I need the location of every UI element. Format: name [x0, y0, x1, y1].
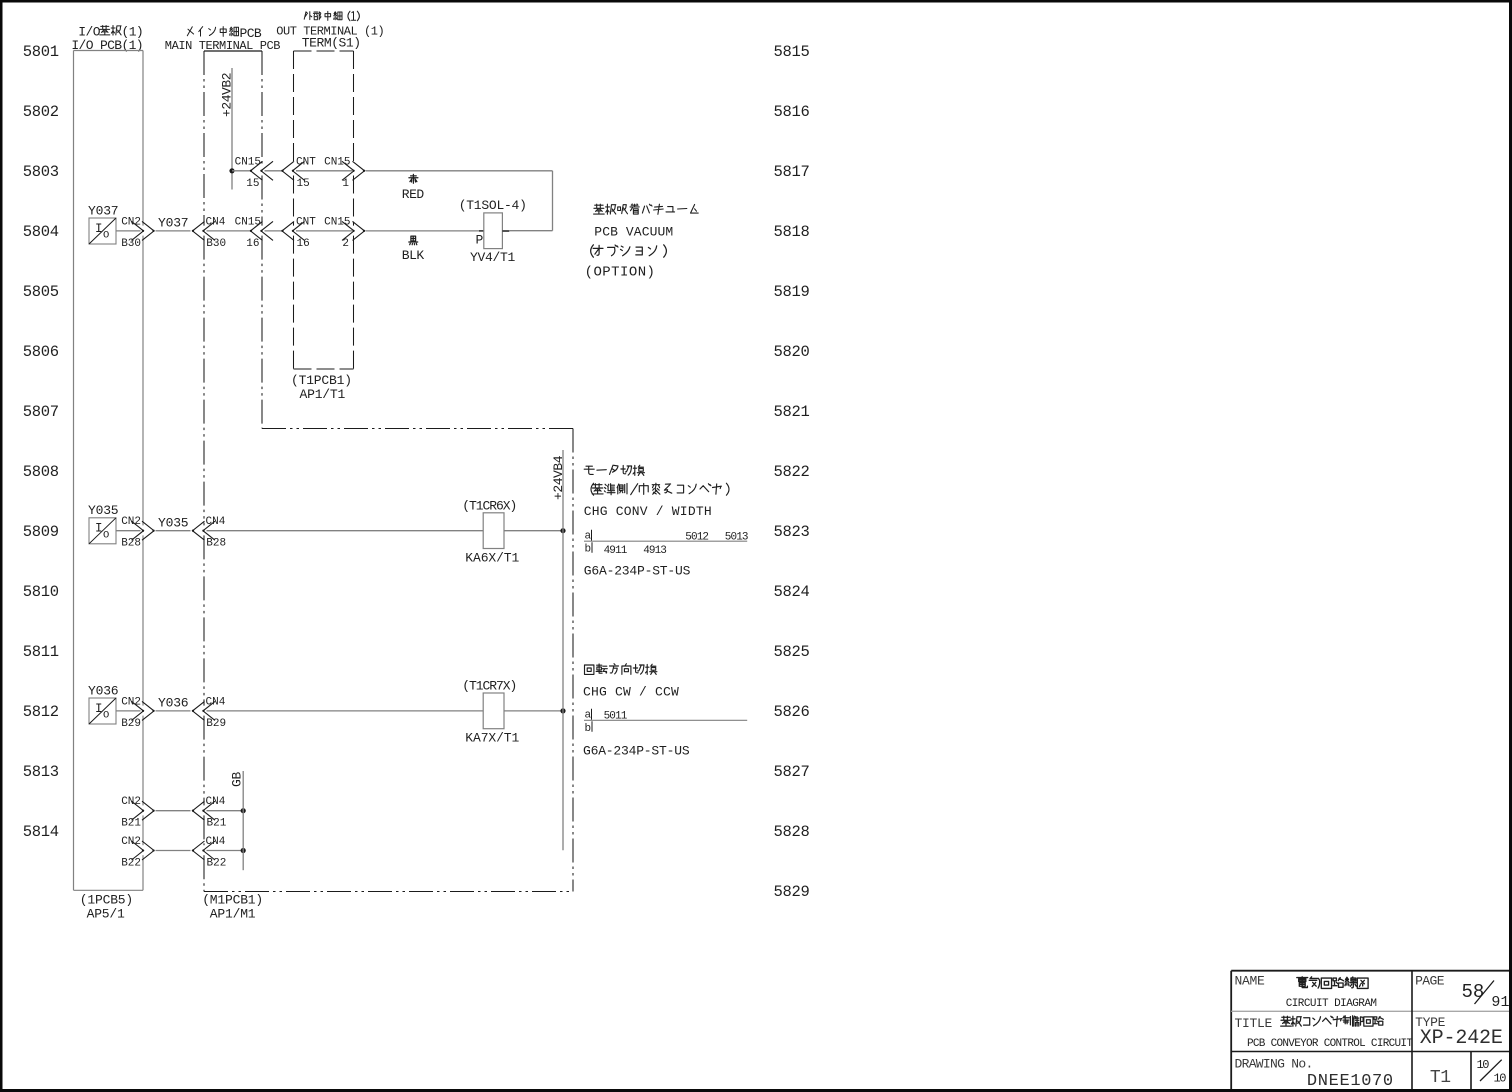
svg-text:5829: 5829 [774, 883, 810, 901]
svg-text:O: O [103, 529, 109, 541]
svg-text:Y036: Y036 [88, 683, 118, 698]
svg-text:CN2: CN2 [121, 836, 141, 848]
svg-text:5809: 5809 [23, 523, 59, 541]
svg-text:5817: 5817 [774, 163, 810, 181]
svg-text:(T1PCB1): (T1PCB1) [291, 373, 352, 388]
svg-text:5828: 5828 [774, 823, 810, 841]
svg-text:B28: B28 [121, 538, 141, 550]
svg-text:CN15: CN15 [235, 156, 261, 168]
svg-text:5818: 5818 [774, 223, 810, 241]
svg-text:5804: 5804 [23, 223, 59, 241]
svg-text:Y037: Y037 [88, 203, 118, 218]
svg-text:Y037: Y037 [158, 216, 188, 231]
svg-text:15: 15 [297, 178, 310, 190]
svg-text:1: 1 [342, 178, 349, 190]
svg-text:NAME: NAME [1235, 974, 1266, 989]
svg-text:PCB VACUUM: PCB VACUUM [594, 224, 673, 239]
svg-text:91: 91 [1491, 994, 1509, 1011]
svg-text:B29: B29 [206, 718, 226, 730]
svg-text:5827: 5827 [774, 763, 810, 781]
svg-text:10: 10 [1494, 1072, 1507, 1086]
svg-text:5806: 5806 [23, 343, 59, 361]
svg-text:PAGE: PAGE [1415, 974, 1445, 989]
svg-text:5811: 5811 [23, 643, 59, 661]
svg-text:DRAWING No.: DRAWING No. [1235, 1057, 1313, 1072]
svg-text:5808: 5808 [23, 463, 59, 481]
svg-text:(T1CR6X): (T1CR6X) [462, 499, 516, 514]
svg-text:O: O [103, 230, 109, 242]
svg-text:B30: B30 [206, 238, 226, 250]
svg-text:XP-242E: XP-242E [1420, 1027, 1503, 1050]
svg-text:4911: 4911 [604, 545, 628, 557]
svg-text:5801: 5801 [23, 43, 59, 61]
svg-text:(T1SOL-4): (T1SOL-4) [459, 198, 527, 213]
svg-text:5802: 5802 [23, 103, 59, 121]
svg-text:5814: 5814 [23, 823, 59, 841]
svg-text:5803: 5803 [23, 163, 59, 181]
svg-text:CN4: CN4 [206, 516, 226, 528]
svg-text:B22: B22 [121, 858, 141, 870]
svg-text:10: 10 [1477, 1058, 1490, 1072]
svg-text:5013: 5013 [725, 531, 748, 543]
svg-text:CN15: CN15 [324, 156, 350, 168]
svg-text:AP5/1: AP5/1 [87, 907, 125, 922]
svg-text:B30: B30 [121, 238, 141, 250]
svg-text:B29: B29 [121, 718, 141, 730]
svg-text:I: I [95, 702, 103, 716]
svg-text:KA7X/T1: KA7X/T1 [465, 731, 519, 746]
svg-text:CNT: CNT [296, 156, 316, 168]
svg-text:O: O [103, 710, 109, 722]
svg-text:I: I [95, 222, 103, 236]
svg-text:B22: B22 [207, 858, 227, 870]
svg-text:KA6X/T1: KA6X/T1 [465, 551, 519, 566]
svg-text:CIRCUIT DIAGRAM: CIRCUIT DIAGRAM [1286, 998, 1377, 1010]
svg-text:Y036: Y036 [158, 696, 188, 711]
svg-text:CN2: CN2 [121, 696, 141, 708]
svg-text:CN4: CN4 [206, 696, 226, 708]
svg-text:CN15: CN15 [235, 216, 261, 228]
svg-text:15: 15 [246, 178, 259, 190]
svg-text:5012: 5012 [685, 531, 708, 543]
svg-text:5824: 5824 [774, 583, 810, 601]
svg-text:CN4: CN4 [206, 836, 226, 848]
svg-text:+24VB4: +24VB4 [551, 455, 566, 500]
svg-text:5812: 5812 [23, 703, 59, 721]
svg-text:b: b [585, 544, 592, 556]
svg-text:PCB CONVEYOR CONTROL CIRCUIT: PCB CONVEYOR CONTROL CIRCUIT [1247, 1038, 1413, 1050]
svg-text:5823: 5823 [774, 523, 810, 541]
svg-text:16: 16 [297, 238, 310, 250]
svg-text:CNT: CNT [296, 216, 316, 228]
svg-text:DNEE1070: DNEE1070 [1307, 1072, 1394, 1091]
svg-text:CHG CW / CCW: CHG CW / CCW [583, 685, 679, 700]
svg-text:Y035: Y035 [88, 503, 118, 518]
svg-text:I: I [95, 522, 103, 536]
svg-text:5810: 5810 [23, 583, 59, 601]
svg-text:5815: 5815 [774, 43, 810, 61]
svg-text:16: 16 [246, 238, 259, 250]
svg-text:4913: 4913 [643, 545, 666, 557]
svg-text:5011: 5011 [604, 711, 628, 723]
svg-text:5826: 5826 [774, 703, 810, 721]
svg-text:5816: 5816 [774, 103, 810, 121]
svg-text:5821: 5821 [774, 403, 810, 421]
svg-text:CN4: CN4 [206, 796, 226, 808]
svg-text:b: b [585, 723, 592, 735]
svg-text:B21: B21 [121, 818, 141, 830]
svg-text:5820: 5820 [774, 343, 810, 361]
svg-text:B28: B28 [206, 538, 226, 550]
svg-text:5813: 5813 [23, 763, 59, 781]
svg-text:CN15: CN15 [324, 216, 350, 228]
svg-text:RED: RED [402, 187, 425, 202]
svg-text:GB: GB [230, 771, 245, 787]
svg-text:TERM(S1): TERM(S1) [302, 36, 361, 51]
svg-text:CHG CONV / WIDTH: CHG CONV / WIDTH [584, 504, 712, 519]
svg-text:YV4/T1: YV4/T1 [470, 250, 516, 265]
svg-text:CN2: CN2 [121, 516, 141, 528]
svg-text:5805: 5805 [23, 283, 59, 301]
svg-text:(OPTION): (OPTION) [585, 265, 656, 281]
svg-text:T1: T1 [1430, 1068, 1451, 1088]
svg-text:BLK: BLK [402, 248, 425, 263]
svg-text:B21: B21 [207, 818, 227, 830]
svg-text:5807: 5807 [23, 403, 59, 421]
svg-text:G6A-234P-ST-US: G6A-234P-ST-US [584, 564, 691, 579]
svg-text:AP1/M1: AP1/M1 [210, 907, 256, 922]
svg-text:(1PCB5): (1PCB5) [80, 893, 133, 908]
svg-text:AP1/T1: AP1/T1 [300, 387, 346, 402]
svg-text:5825: 5825 [774, 643, 810, 661]
svg-text:5819: 5819 [774, 283, 810, 301]
svg-text:P: P [476, 233, 484, 248]
svg-text:2: 2 [342, 238, 349, 250]
svg-text:(M1PCB1): (M1PCB1) [202, 893, 263, 908]
svg-text:CN2: CN2 [121, 796, 141, 808]
svg-text:G6A-234P-ST-US: G6A-234P-ST-US [583, 744, 690, 759]
svg-text:Y035: Y035 [158, 515, 188, 530]
svg-text:CN4: CN4 [206, 216, 226, 228]
svg-text:58: 58 [1462, 981, 1485, 1003]
svg-text:CN2: CN2 [121, 216, 141, 228]
svg-text:5822: 5822 [774, 463, 810, 481]
svg-text:TITLE: TITLE [1235, 1016, 1273, 1031]
svg-text:(T1CR7X): (T1CR7X) [462, 679, 516, 694]
